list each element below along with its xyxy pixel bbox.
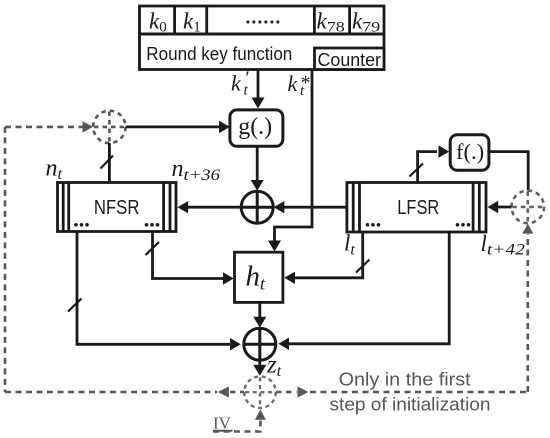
wire X1 down to NFSR [108, 143, 111, 182]
svg-text:IV: IV [213, 414, 232, 433]
dashed wire left vertical [4, 127, 7, 392]
wire h down to X4 [258, 302, 261, 317]
svg-text:Round key function: Round key function [146, 43, 292, 64]
label k*t [288, 71, 311, 99]
bus slash [410, 164, 424, 177]
svg-text:k: k [231, 71, 242, 96]
Counter box [315, 48, 385, 70]
NFSR register [58, 183, 177, 232]
svg-text:g(.): g(.) [238, 114, 272, 140]
LFSR register [347, 183, 486, 233]
svg-text:NFSR: NFSR [94, 196, 139, 219]
bus slash [356, 260, 370, 273]
wire k't from round key function to g [257, 70, 260, 100]
Round key function box [140, 34, 385, 70]
wire X3 to LFSR [498, 206, 512, 209]
xor X4 (bottom) [244, 328, 276, 360]
svg-text:f(.): f(.) [456, 139, 484, 164]
xor X2 (center) [241, 191, 273, 223]
wire LFSR tap2 down to X4 [289, 232, 449, 344]
wire X4 output zt [258, 360, 261, 365]
dashed wire up into X3 [526, 234, 529, 392]
NFSR dots [74, 223, 159, 227]
wire LFSR tap1 to h [295, 232, 363, 278]
svg-text:Only in the first: Only in the first [339, 370, 471, 390]
svg-text:Counter: Counter [318, 49, 382, 70]
dashed wire X5 left with arrow [230, 391, 244, 394]
wire LFSR to X2 [284, 206, 347, 209]
LFSR dots [366, 223, 471, 227]
key register box [140, 6, 385, 34]
wire f to X3 [489, 152, 528, 191]
dashed wire IV-loop into X1 [5, 126, 83, 129]
label k't [231, 68, 250, 99]
wire g to X2 [256, 146, 259, 181]
wire NFSR tap1 down to X4 [77, 232, 230, 345]
op block f(.) [450, 135, 489, 171]
bus slash [68, 299, 82, 312]
bus slash [101, 156, 114, 169]
xor X1 dashed (left, gray) [93, 111, 125, 143]
op block g(.) [230, 110, 283, 146]
bus slash [146, 242, 160, 255]
wire LFSR top to f [418, 152, 437, 183]
wire X1 to g [126, 126, 220, 129]
svg-text:LFSR: LFSR [397, 196, 439, 219]
svg-text:step of initialization: step of initialization [330, 395, 491, 415]
wire NFSR tap2 to h [153, 232, 224, 279]
dashed wire IV up into X5 [213, 421, 260, 432]
svg-text:k: k [288, 71, 299, 96]
wire X2 to NFSR [188, 206, 241, 209]
wire k*t from round key function down [275, 70, 313, 242]
xor X3 dashed (right, gray) [512, 191, 545, 224]
xor X5 dashed (bottom, gray) [244, 376, 276, 408]
op block ht [235, 252, 283, 302]
dashed wire X5 right with arrow [276, 391, 297, 394]
cell label dots [247, 21, 280, 24]
